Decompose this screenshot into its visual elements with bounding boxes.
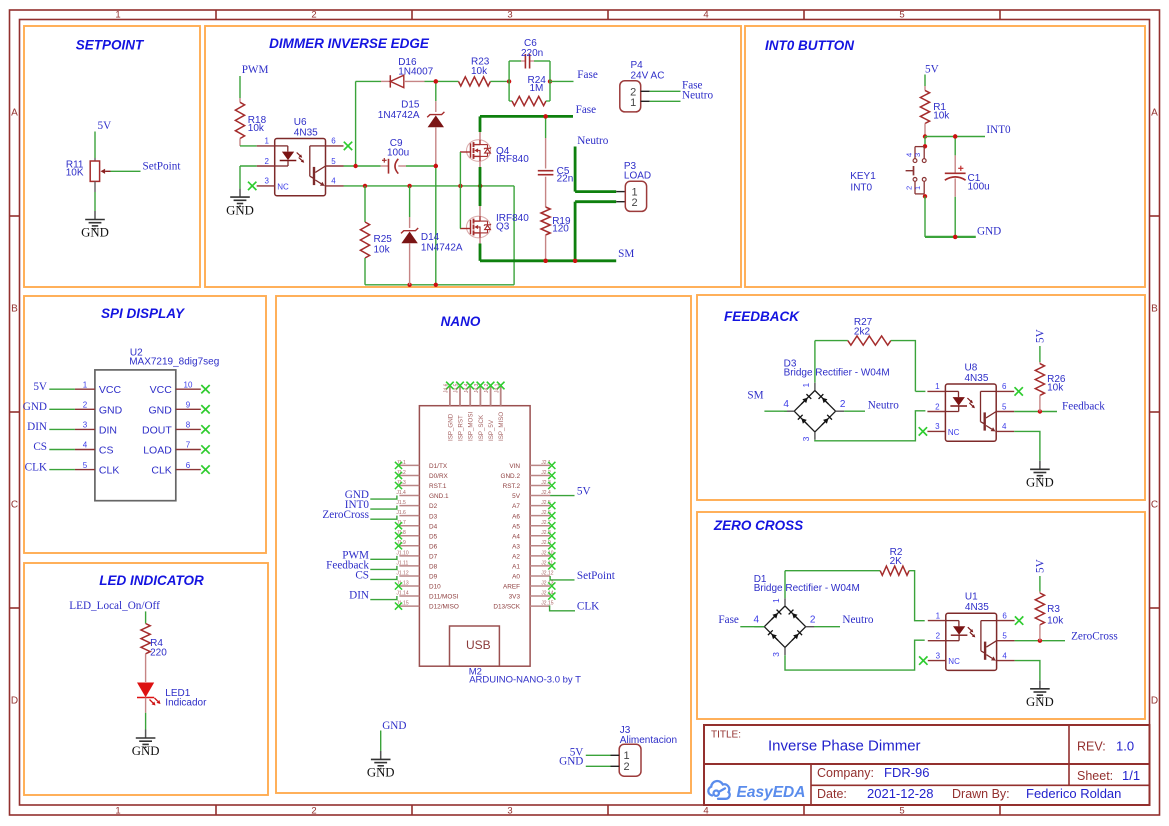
svg-text:A3: A3 — [512, 543, 520, 550]
svg-text:D6: D6 — [429, 543, 438, 550]
svg-text:SetPoint: SetPoint — [143, 161, 182, 173]
svg-text:J4.2: J4.2 — [484, 383, 490, 393]
svg-text:REV:: REV: — [1077, 740, 1106, 754]
svg-text:A1: A1 — [512, 564, 520, 571]
svg-text:Neutro: Neutro — [577, 135, 608, 147]
svg-text:2: 2 — [623, 761, 629, 773]
svg-text:D: D — [11, 696, 18, 707]
svg-text:SM: SM — [618, 248, 634, 260]
svg-text:ISP_RST: ISP_RST — [457, 415, 464, 441]
svg-text:AREF: AREF — [503, 584, 520, 591]
svg-text:5: 5 — [331, 157, 336, 166]
svg-text:A2: A2 — [512, 553, 520, 560]
svg-text:6: 6 — [331, 137, 336, 146]
svg-text:10k: 10k — [1047, 616, 1064, 627]
svg-text:4: 4 — [703, 10, 708, 21]
svg-text:4: 4 — [1002, 422, 1007, 431]
svg-text:5: 5 — [83, 461, 88, 470]
svg-text:INT0: INT0 — [986, 124, 1011, 136]
svg-text:5V: 5V — [1035, 559, 1047, 573]
svg-text:2: 2 — [311, 805, 316, 816]
svg-text:USB: USB — [466, 638, 491, 652]
svg-text:Fase: Fase — [718, 614, 739, 626]
svg-text:4N35: 4N35 — [965, 373, 989, 384]
svg-text:LED_Local_On/Off: LED_Local_On/Off — [69, 600, 160, 612]
svg-text:100u: 100u — [387, 148, 409, 159]
svg-text:INT0 BUTTON: INT0 BUTTON — [765, 38, 854, 53]
svg-text:D0/RX: D0/RX — [429, 473, 449, 480]
svg-text:Neutro: Neutro — [868, 400, 899, 412]
svg-text:220n: 220n — [521, 48, 543, 59]
svg-text:TITLE:: TITLE: — [711, 730, 741, 741]
svg-text:10k: 10k — [374, 245, 391, 256]
svg-text:100u: 100u — [968, 182, 990, 193]
svg-text:ISP_SCK: ISP_SCK — [478, 414, 485, 441]
svg-text:10k: 10k — [1047, 383, 1064, 394]
svg-text:ZERO CROSS: ZERO CROSS — [713, 518, 803, 533]
svg-text:3: 3 — [264, 177, 269, 186]
svg-text:NC: NC — [277, 182, 289, 191]
svg-text:3: 3 — [83, 421, 88, 430]
svg-text:10k: 10k — [248, 123, 265, 134]
svg-text:24V AC: 24V AC — [631, 70, 665, 81]
svg-text:2k2: 2k2 — [854, 326, 871, 337]
svg-text:J4.6: J4.6 — [444, 383, 450, 393]
svg-text:CLK: CLK — [151, 465, 171, 477]
svg-text:Bridge Rectifier - W04M: Bridge Rectifier - W04M — [784, 368, 890, 379]
svg-text:Q3: Q3 — [496, 222, 510, 233]
svg-text:3: 3 — [913, 153, 922, 157]
svg-text:J1.4: J1.4 — [396, 490, 406, 496]
svg-text:2: 2 — [936, 632, 941, 641]
svg-text:1: 1 — [630, 97, 636, 109]
svg-text:5V: 5V — [33, 381, 47, 393]
svg-text:CS: CS — [355, 569, 369, 581]
svg-text:3: 3 — [507, 10, 512, 21]
svg-text:Neutro: Neutro — [682, 90, 713, 102]
svg-text:10K: 10K — [66, 168, 84, 179]
svg-text:10: 10 — [184, 380, 193, 389]
svg-text:RST.2: RST.2 — [503, 483, 521, 490]
svg-text:1: 1 — [771, 598, 781, 603]
svg-text:2: 2 — [840, 399, 846, 410]
svg-text:GND.2: GND.2 — [500, 473, 520, 480]
svg-text:IRF840: IRF840 — [496, 154, 529, 165]
svg-text:VIN: VIN — [509, 463, 520, 470]
svg-text:D9: D9 — [429, 574, 438, 581]
svg-text:FEEDBACK: FEEDBACK — [724, 309, 800, 324]
svg-text:GND: GND — [367, 766, 395, 780]
svg-text:GND: GND — [559, 756, 583, 768]
svg-text:1: 1 — [115, 805, 120, 816]
svg-text:J1.12: J1.12 — [396, 570, 408, 576]
svg-text:Sheet:: Sheet: — [1077, 769, 1113, 783]
svg-text:INT0: INT0 — [850, 183, 872, 194]
svg-text:A5: A5 — [512, 523, 520, 530]
svg-text:A6: A6 — [512, 513, 520, 520]
svg-text:5V: 5V — [98, 120, 112, 132]
svg-text:CLK: CLK — [99, 465, 119, 477]
svg-text:D1/TX: D1/TX — [429, 463, 448, 470]
svg-text:4: 4 — [1002, 651, 1007, 660]
svg-text:5: 5 — [1002, 402, 1007, 411]
svg-text:GND: GND — [148, 404, 172, 416]
svg-text:1N4742A: 1N4742A — [421, 242, 463, 253]
svg-text:ISP_MISO: ISP_MISO — [498, 412, 505, 441]
svg-text:1N4007: 1N4007 — [398, 67, 433, 78]
svg-text:EasyEDA: EasyEDA — [737, 784, 806, 801]
svg-text:D11/MOSI: D11/MOSI — [429, 594, 459, 601]
svg-text:Indicador: Indicador — [165, 697, 207, 708]
svg-text:LED INDICATOR: LED INDICATOR — [99, 573, 204, 588]
svg-text:GND: GND — [382, 720, 406, 732]
svg-text:Fase: Fase — [577, 69, 598, 81]
svg-text:J2.12: J2.12 — [541, 570, 553, 576]
svg-text:J4.4: J4.4 — [464, 383, 470, 393]
svg-text:4: 4 — [783, 399, 789, 410]
svg-text:4: 4 — [754, 615, 760, 626]
svg-text:3: 3 — [771, 652, 781, 657]
svg-text:B: B — [11, 304, 18, 315]
svg-text:5: 5 — [1002, 632, 1007, 641]
svg-text:120: 120 — [552, 224, 569, 235]
svg-text:D: D — [1151, 696, 1158, 707]
svg-text:J2.15: J2.15 — [541, 601, 553, 607]
svg-text:SPI DISPLAY: SPI DISPLAY — [101, 306, 186, 321]
svg-text:A: A — [11, 108, 18, 119]
svg-text:1: 1 — [936, 611, 941, 620]
svg-text:DIN: DIN — [27, 421, 47, 433]
svg-text:Feedback: Feedback — [1062, 401, 1105, 413]
svg-text:2: 2 — [905, 186, 914, 190]
svg-text:6: 6 — [1002, 382, 1007, 391]
svg-text:Bridge Rectifier - W04M: Bridge Rectifier - W04M — [754, 583, 860, 594]
svg-text:5V: 5V — [512, 493, 521, 500]
svg-text:4N35: 4N35 — [294, 127, 318, 138]
svg-text:D13/SCK: D13/SCK — [493, 604, 520, 611]
svg-text:10k: 10k — [933, 111, 950, 122]
svg-text:6: 6 — [1002, 611, 1007, 620]
svg-text:LOAD: LOAD — [143, 445, 172, 457]
svg-text:KEY1: KEY1 — [850, 171, 876, 182]
svg-text:D8: D8 — [429, 564, 438, 571]
svg-text:10k: 10k — [471, 66, 488, 77]
svg-text:PWM: PWM — [242, 64, 269, 76]
svg-text:ISP_5V: ISP_5V — [488, 419, 495, 441]
svg-text:GND: GND — [23, 401, 47, 413]
svg-text:1: 1 — [83, 380, 88, 389]
svg-text:CS: CS — [99, 445, 114, 457]
svg-text:1N4742A: 1N4742A — [378, 110, 420, 121]
svg-text:J4.1: J4.1 — [494, 383, 500, 393]
svg-text:J1.5: J1.5 — [396, 500, 406, 506]
svg-text:Fase: Fase — [576, 104, 597, 116]
svg-text:2K: 2K — [890, 556, 903, 567]
svg-text:J4.5: J4.5 — [454, 383, 460, 393]
svg-text:1M: 1M — [530, 83, 544, 94]
svg-text:VCC: VCC — [99, 384, 122, 396]
svg-text:Company:: Company: — [817, 766, 874, 780]
svg-text:6: 6 — [186, 461, 191, 470]
svg-text:Drawn By:: Drawn By: — [952, 787, 1010, 801]
svg-text:ZeroCross: ZeroCross — [322, 509, 369, 521]
svg-text:5: 5 — [899, 805, 904, 816]
svg-text:J1.11: J1.11 — [396, 560, 408, 566]
svg-text:D2: D2 — [429, 503, 438, 510]
svg-text:J1.14: J1.14 — [396, 590, 408, 596]
svg-text:5V: 5V — [1035, 329, 1047, 343]
svg-text:NANO: NANO — [441, 314, 481, 329]
svg-text:GND: GND — [1026, 476, 1054, 490]
svg-text:GND: GND — [1026, 695, 1054, 709]
svg-text:DIMMER INVERSE EDGE: DIMMER INVERSE EDGE — [269, 36, 430, 51]
svg-text:5V: 5V — [577, 486, 591, 498]
svg-text:22n: 22n — [557, 174, 574, 185]
svg-text:1: 1 — [115, 10, 120, 21]
svg-text:D10: D10 — [429, 584, 441, 591]
svg-text:FDR-96: FDR-96 — [884, 765, 930, 780]
svg-text:D4: D4 — [429, 523, 438, 530]
svg-text:5: 5 — [899, 10, 904, 21]
svg-text:3: 3 — [936, 651, 941, 660]
svg-text:5V: 5V — [925, 64, 939, 76]
svg-text:NC: NC — [948, 657, 960, 666]
svg-text:Federico Roldan: Federico Roldan — [1026, 786, 1121, 801]
svg-text:ZeroCross: ZeroCross — [1071, 631, 1118, 643]
svg-text:GND: GND — [977, 226, 1001, 238]
svg-text:D12/MISO: D12/MISO — [429, 604, 459, 611]
svg-text:J1.6: J1.6 — [396, 510, 406, 516]
svg-text:B: B — [1151, 304, 1158, 315]
svg-text:CS: CS — [33, 441, 47, 453]
svg-text:CLK: CLK — [25, 461, 47, 473]
svg-text:3V3: 3V3 — [509, 594, 521, 601]
svg-text:J2.4: J2.4 — [541, 490, 551, 496]
svg-text:1.0: 1.0 — [1116, 739, 1134, 754]
svg-text:1: 1 — [935, 382, 940, 391]
svg-text:DIN: DIN — [99, 424, 117, 436]
svg-text:220: 220 — [150, 647, 167, 658]
svg-text:A: A — [1151, 108, 1158, 119]
svg-text:2: 2 — [264, 157, 269, 166]
svg-text:DOUT: DOUT — [142, 424, 172, 436]
svg-text:NC: NC — [948, 428, 960, 437]
svg-text:4: 4 — [83, 441, 88, 450]
svg-text:LOAD: LOAD — [624, 170, 651, 181]
svg-text:3: 3 — [935, 422, 940, 431]
svg-text:4N35: 4N35 — [965, 602, 989, 613]
svg-text:A7: A7 — [512, 503, 520, 510]
svg-text:9: 9 — [186, 401, 191, 410]
svg-text:Inverse Phase Dimmer: Inverse Phase Dimmer — [768, 738, 921, 755]
svg-text:3: 3 — [507, 805, 512, 816]
svg-text:D5: D5 — [429, 533, 438, 540]
svg-text:SetPoint: SetPoint — [577, 570, 616, 582]
svg-text:GND: GND — [132, 744, 160, 758]
svg-text:3: 3 — [801, 436, 811, 441]
svg-text:ISP_MOSI: ISP_MOSI — [468, 411, 475, 441]
svg-text:1: 1 — [913, 186, 922, 190]
svg-text:1/1: 1/1 — [1122, 768, 1140, 783]
svg-text:ISP_GND: ISP_GND — [447, 413, 454, 441]
svg-text:2021-12-28: 2021-12-28 — [867, 786, 934, 801]
svg-text:2: 2 — [83, 401, 88, 410]
svg-text:2: 2 — [810, 615, 816, 626]
svg-text:SM: SM — [747, 390, 763, 402]
svg-text:Date:: Date: — [817, 787, 847, 801]
svg-text:GND: GND — [99, 404, 123, 416]
svg-text:GND: GND — [226, 203, 254, 217]
svg-text:RST.1: RST.1 — [429, 483, 447, 490]
svg-text:D15: D15 — [401, 100, 420, 111]
svg-text:4: 4 — [905, 153, 914, 157]
svg-text:1: 1 — [801, 383, 811, 388]
svg-text:CLK: CLK — [577, 601, 599, 613]
svg-text:SETPOINT: SETPOINT — [76, 38, 145, 53]
svg-text:4: 4 — [703, 805, 708, 816]
svg-text:ARDUINO-NANO-3.0 by T: ARDUINO-NANO-3.0 by T — [469, 674, 581, 685]
svg-text:A0: A0 — [512, 574, 520, 581]
svg-text:R25: R25 — [374, 234, 393, 245]
svg-text:GND.1: GND.1 — [429, 493, 449, 500]
svg-text:A4: A4 — [512, 533, 520, 540]
svg-text:4: 4 — [331, 177, 336, 186]
svg-text:J4.3: J4.3 — [474, 383, 480, 393]
svg-text:1: 1 — [264, 137, 269, 146]
svg-text:C: C — [11, 500, 18, 511]
svg-text:2: 2 — [631, 197, 637, 209]
svg-text:8: 8 — [186, 421, 191, 430]
svg-text:R3: R3 — [1047, 604, 1060, 615]
svg-text:VCC: VCC — [150, 384, 173, 396]
svg-text:MAX7219_8dig7seg: MAX7219_8dig7seg — [129, 357, 219, 368]
svg-text:C: C — [1151, 500, 1158, 511]
svg-text:7: 7 — [186, 441, 191, 450]
svg-text:J1.10: J1.10 — [396, 550, 408, 556]
svg-text:2: 2 — [311, 10, 316, 21]
svg-text:DIN: DIN — [349, 590, 369, 602]
svg-text:Neutro: Neutro — [842, 614, 873, 626]
svg-text:2: 2 — [935, 402, 940, 411]
svg-text:GND: GND — [81, 226, 109, 240]
svg-text:D3: D3 — [429, 513, 438, 520]
svg-text:D7: D7 — [429, 553, 438, 560]
